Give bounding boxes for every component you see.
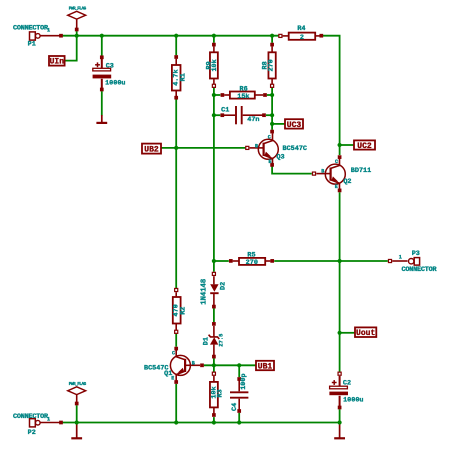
- resistor R8 270: [262, 43, 276, 88]
- wire Q1 base to UB1 label: [204, 364, 256, 366]
- wire UB1 node to R3: [213, 365, 215, 372]
- wire Q3 emitter to Q2 base: [272, 167, 312, 174]
- global label UB1: [256, 361, 274, 372]
- svg-text:D1: D1: [203, 337, 211, 345]
- svg-text:UB1: UB1: [258, 362, 273, 371]
- wire C4 bottom stub: [238, 413, 240, 423]
- junction at (213.9,115.2): [212, 113, 216, 117]
- junction at (239.2,365.3): [237, 363, 241, 367]
- wire R1 to UB2 node to R2: [175, 99, 177, 288]
- svg-text:1N4148: 1N4148: [201, 279, 209, 305]
- svg-text:Z7.5: Z7.5: [219, 334, 225, 347]
- wire UB2 label to Q3 base: [161, 147, 245, 149]
- global label Uout: [355, 327, 376, 338]
- wire UIn branch: [65, 36, 77, 61]
- svg-text:R1: R1: [180, 73, 188, 81]
- ground below P2: [71, 424, 82, 438]
- junction at (272.1,115.2): [270, 113, 274, 117]
- wire C3 top branch: [101, 36, 103, 56]
- junction at (176.2,35.7): [174, 34, 178, 38]
- svg-text:Uout: Uout: [356, 329, 375, 338]
- svg-text:100p: 100p: [240, 373, 248, 389]
- junction at (272.1,123.9): [270, 122, 274, 126]
- zener diode D1 Z7.5: [203, 322, 225, 358]
- svg-text:UB2: UB2: [144, 145, 159, 154]
- global label UIn: [49, 56, 65, 67]
- wire Uout label stub: [340, 332, 355, 334]
- capacitor C1 47n: [220, 106, 265, 124]
- global label UC2: [354, 140, 375, 150]
- svg-text:C1: C1: [221, 107, 229, 115]
- svg-text:Q3: Q3: [276, 153, 284, 161]
- wire PWR_FLAG P1 stub: [76, 31, 78, 36]
- junction at (213.9,365.3): [212, 363, 216, 367]
- ground below C3: [96, 115, 107, 123]
- wire Q1 emitter to bottom rail: [175, 384, 177, 423]
- resistor R3 10k: [210, 372, 225, 417]
- svg-text:E: E: [268, 159, 271, 165]
- svg-text:C: C: [335, 159, 338, 165]
- wire R8 to Q3 collector: [271, 88, 273, 130]
- svg-text:UIn: UIn: [50, 58, 65, 67]
- junction at (339.6,422.5): [338, 420, 342, 424]
- wire C3 to ground: [101, 91, 103, 115]
- wire C2 to bottom rail: [339, 409, 341, 422]
- junction at (76.7,35.7): [75, 34, 79, 38]
- junction at (272.1,35.7): [270, 34, 274, 38]
- wire C1 right stub: [266, 114, 272, 116]
- svg-text:B: B: [321, 168, 324, 174]
- resistor R2 470: [173, 288, 188, 333]
- svg-text:BC547C: BC547C: [283, 145, 307, 153]
- junction at (339.6,145): [338, 143, 342, 147]
- svg-text:UC2: UC2: [357, 142, 372, 151]
- svg-text:1: 1: [47, 417, 50, 423]
- svg-text:1: 1: [47, 28, 50, 34]
- transistor Q2 BD711: [312, 155, 371, 192]
- wire rail to R1: [175, 36, 177, 56]
- svg-text:B: B: [255, 144, 258, 150]
- svg-text:C4: C4: [231, 403, 239, 411]
- junction at (213.9,422.5): [212, 420, 216, 424]
- resistor R1 4.7k: [172, 55, 188, 99]
- wire rail to R9: [213, 36, 215, 43]
- svg-text:1: 1: [399, 254, 402, 260]
- wire D1 to UB1 node: [213, 358, 215, 365]
- resistor R4 2: [279, 25, 323, 42]
- global label UB2: [142, 144, 161, 155]
- diode D2 1N4148: [201, 272, 228, 308]
- svg-text:2: 2: [300, 34, 304, 42]
- connector P1: [13, 24, 63, 48]
- transistor Q1 BC547C: [144, 347, 204, 384]
- svg-text:R2: R2: [180, 307, 188, 315]
- resistor R9 10k: [205, 43, 219, 88]
- connector P2: [13, 413, 63, 437]
- svg-text:Q1: Q1: [164, 370, 172, 378]
- svg-text:CONNECTOR: CONNECTOR: [402, 266, 438, 274]
- svg-text:Q2: Q2: [343, 178, 351, 186]
- junction at (339.6,261): [338, 259, 342, 263]
- svg-text:1000u: 1000u: [105, 79, 125, 87]
- global label UC3: [285, 119, 303, 130]
- junction at (272.1,95): [270, 93, 274, 97]
- ground below C2: [334, 424, 345, 438]
- svg-text:270: 270: [246, 259, 258, 267]
- junction at (213.9,35.7): [212, 34, 216, 38]
- svg-text:C: C: [172, 351, 175, 357]
- wire R9 to D2 node: [213, 88, 215, 272]
- resistor R5 270: [229, 252, 274, 268]
- svg-text:R4: R4: [297, 25, 305, 33]
- wire C4 top stub: [238, 365, 240, 377]
- wire PWR_FLAG P2 stub: [76, 405, 78, 422]
- svg-text:R3: R3: [217, 389, 225, 397]
- svg-text:C: C: [268, 134, 271, 140]
- svg-text:270: 270: [267, 59, 275, 71]
- wire UC3 stub: [272, 123, 285, 125]
- svg-text:10k: 10k: [211, 59, 219, 71]
- transistor Q3 BC547C: [246, 130, 307, 167]
- connector P3: [388, 250, 437, 274]
- wire R5 left stub: [214, 260, 229, 262]
- wire rail to R8: [271, 36, 273, 43]
- power flag at P1: [68, 7, 87, 32]
- wire R4 output to corner: [322, 36, 340, 145]
- svg-text:B: B: [192, 360, 195, 366]
- junction at (176.2,422.5): [174, 420, 178, 424]
- svg-text:P1: P1: [28, 40, 36, 48]
- wire bottom rail: [62, 422, 340, 424]
- svg-text:CONNECTOR: CONNECTOR: [13, 24, 49, 32]
- wire Uout branch: [339, 333, 341, 372]
- capacitor C4 100p: [230, 373, 248, 412]
- wire D2 to D1: [213, 308, 215, 322]
- resistor R6 15k: [221, 85, 267, 100]
- junction at (239.2,422.5): [237, 420, 241, 424]
- svg-text:47n: 47n: [247, 116, 259, 124]
- svg-text:PWR_FLAG: PWR_FLAG: [69, 382, 87, 387]
- svg-text:UC3: UC3: [287, 121, 302, 130]
- wire C1 left stub: [214, 114, 220, 116]
- junction at (339.6,332.8): [338, 331, 342, 335]
- svg-text:BD711: BD711: [351, 167, 371, 175]
- junction at (213.9,95): [212, 93, 216, 97]
- wire top supply rail: [62, 35, 279, 37]
- svg-text:1000u: 1000u: [343, 396, 363, 404]
- wire R5 to P3: [274, 260, 388, 262]
- junction at (176.2,147.9): [174, 146, 178, 150]
- wire R6 right stub: [267, 94, 272, 96]
- svg-text:15k: 15k: [237, 93, 249, 101]
- svg-text:P2: P2: [28, 429, 36, 437]
- svg-text:D2: D2: [220, 282, 228, 290]
- wire UC2 stub: [340, 144, 354, 146]
- power flag at P2: [68, 382, 87, 405]
- svg-text:E: E: [335, 184, 338, 190]
- junction at (213.9,261): [212, 259, 216, 263]
- wire R2 to Q1 collector: [175, 334, 177, 347]
- junction at (76.7,422.5): [75, 420, 79, 424]
- wire Q2 emitter down: [339, 192, 341, 331]
- svg-text:PWR_FLAG: PWR_FLAG: [69, 7, 87, 12]
- wire Q2 collector stub: [339, 145, 341, 155]
- wire R3 to bottom rail: [213, 417, 215, 422]
- capacitor C2 1000u: [329, 372, 363, 409]
- wire R6 left stub: [214, 94, 220, 96]
- junction at (101.8,35.7): [100, 34, 104, 38]
- capacitor C3 1000u: [93, 55, 126, 91]
